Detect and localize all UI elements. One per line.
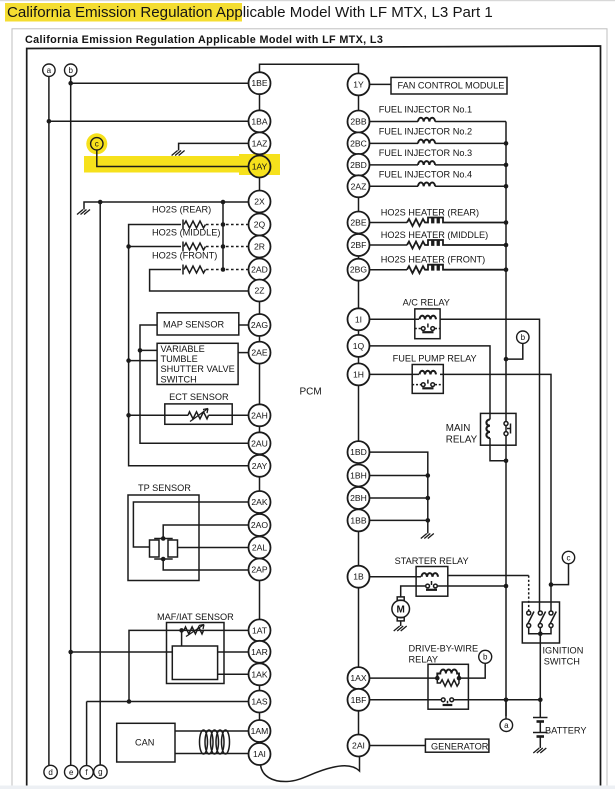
svg-text:FUEL INJECTOR No.4: FUEL INJECTOR No.4 — [379, 170, 472, 180]
svg-text:2AP: 2AP — [251, 565, 268, 575]
svg-text:HO2S HEATER (MIDDLE): HO2S HEATER (MIDDLE) — [381, 230, 489, 240]
svg-text:1AX: 1AX — [350, 673, 367, 683]
svg-text:c: c — [95, 140, 99, 149]
svg-text:c: c — [567, 553, 571, 562]
svg-text:1BF: 1BF — [351, 695, 367, 705]
svg-text:BATTERY: BATTERY — [545, 726, 587, 736]
svg-text:TP SENSOR: TP SENSOR — [138, 483, 191, 493]
svg-text:HO2S HEATER (REAR): HO2S HEATER (REAR) — [381, 208, 479, 218]
svg-text:1BH: 1BH — [350, 471, 367, 481]
svg-text:1AT: 1AT — [252, 625, 268, 635]
svg-text:2Z: 2Z — [254, 286, 264, 296]
svg-text:d: d — [48, 768, 52, 777]
svg-text:2AO: 2AO — [251, 520, 269, 530]
svg-text:1AK: 1AK — [251, 669, 268, 679]
svg-text:HO2S (REAR): HO2S (REAR) — [152, 205, 211, 215]
svg-text:1AR: 1AR — [251, 647, 268, 657]
svg-text:1Y: 1Y — [353, 79, 364, 89]
svg-text:1H: 1H — [353, 369, 364, 379]
svg-text:1BA: 1BA — [251, 116, 268, 126]
svg-text:2AU: 2AU — [251, 438, 268, 448]
svg-text:FUEL INJECTOR No.3: FUEL INJECTOR No.3 — [379, 148, 472, 158]
svg-text:RELAY: RELAY — [409, 655, 438, 665]
svg-text:2AD: 2AD — [251, 265, 268, 275]
svg-text:2Q: 2Q — [254, 220, 266, 230]
svg-text:CAN: CAN — [135, 738, 154, 748]
svg-text:MAP SENSOR: MAP SENSOR — [163, 320, 224, 330]
svg-text:a: a — [47, 66, 52, 75]
svg-text:b: b — [483, 653, 488, 662]
svg-text:1AS: 1AS — [251, 697, 268, 707]
svg-text:2X: 2X — [254, 197, 265, 207]
svg-text:ECT SENSOR: ECT SENSOR — [169, 392, 229, 402]
svg-text:a: a — [504, 721, 509, 730]
svg-text:California Emission Regulation: California Emission Regulation Applicabl… — [25, 34, 383, 46]
svg-text:b: b — [521, 333, 526, 342]
svg-text:PCM: PCM — [300, 387, 322, 398]
svg-text:HO2S HEATER (FRONT): HO2S HEATER (FRONT) — [381, 255, 485, 265]
svg-text:1AI: 1AI — [253, 749, 266, 759]
svg-text:FUEL PUMP RELAY: FUEL PUMP RELAY — [393, 354, 477, 364]
svg-text:2BC: 2BC — [350, 138, 367, 148]
svg-text:2BD: 2BD — [350, 160, 367, 170]
svg-text:MAIN: MAIN — [446, 423, 471, 434]
svg-text:2AK: 2AK — [251, 497, 268, 507]
svg-text:2AG: 2AG — [251, 320, 269, 330]
svg-text:2AZ: 2AZ — [351, 181, 367, 191]
svg-text:2BG: 2BG — [350, 265, 368, 275]
svg-text:1B: 1B — [353, 572, 364, 582]
svg-text:GENERATOR: GENERATOR — [431, 742, 489, 752]
svg-text:b: b — [68, 66, 73, 75]
svg-text:1BB: 1BB — [350, 515, 367, 525]
svg-text:HO2S (FRONT): HO2S (FRONT) — [152, 251, 217, 261]
svg-text:1AM: 1AM — [251, 726, 269, 736]
svg-text:TUMBLE: TUMBLE — [161, 354, 198, 364]
svg-text:STARTER RELAY: STARTER RELAY — [395, 556, 469, 566]
svg-text:2BH: 2BH — [350, 493, 367, 503]
svg-text:M: M — [397, 605, 405, 616]
svg-text:DRIVE-BY-WIRE: DRIVE-BY-WIRE — [409, 644, 479, 654]
svg-text:2R: 2R — [254, 242, 265, 252]
svg-text:IGNITION: IGNITION — [543, 646, 584, 656]
svg-text:1AZ: 1AZ — [252, 138, 268, 148]
svg-text:2AL: 2AL — [252, 543, 268, 553]
svg-text:A/C RELAY: A/C RELAY — [403, 298, 450, 308]
svg-text:RELAY: RELAY — [446, 435, 478, 446]
svg-text:California Emission Regulation: California Emission Regulation Applicabl… — [7, 4, 493, 21]
svg-text:2AE: 2AE — [251, 348, 268, 358]
svg-text:e: e — [69, 768, 74, 777]
svg-text:1BD: 1BD — [350, 447, 367, 457]
svg-text:FUEL INJECTOR No.1: FUEL INJECTOR No.1 — [379, 105, 472, 115]
svg-text:2AI: 2AI — [352, 741, 365, 751]
svg-text:2AY: 2AY — [252, 461, 268, 471]
svg-text:VARIABLE: VARIABLE — [161, 344, 205, 354]
svg-text:FUEL INJECTOR No.2: FUEL INJECTOR No.2 — [379, 127, 472, 137]
svg-text:HO2S (MIDDLE): HO2S (MIDDLE) — [152, 228, 220, 238]
svg-text:1I: 1I — [355, 314, 362, 324]
svg-text:2BB: 2BB — [350, 117, 367, 127]
svg-text:1Q: 1Q — [353, 341, 365, 351]
svg-text:2AH: 2AH — [251, 410, 268, 420]
svg-text:MAF/IAT SENSOR: MAF/IAT SENSOR — [157, 612, 234, 622]
svg-text:SWITCH: SWITCH — [544, 657, 580, 667]
svg-text:FAN CONTROL MODULE: FAN CONTROL MODULE — [398, 81, 505, 91]
svg-text:2BF: 2BF — [351, 240, 367, 250]
svg-text:SWITCH: SWITCH — [161, 374, 197, 384]
svg-text:g: g — [98, 768, 102, 777]
svg-text:1BE: 1BE — [251, 78, 268, 88]
svg-text:2BE: 2BE — [350, 218, 367, 228]
svg-text:1AY: 1AY — [252, 162, 268, 172]
svg-text:SHUTTER VALVE: SHUTTER VALVE — [161, 364, 235, 374]
